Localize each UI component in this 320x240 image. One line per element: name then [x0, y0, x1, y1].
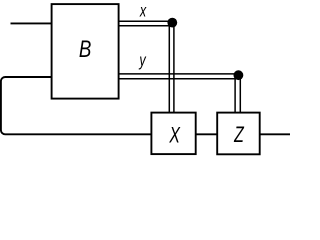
svg-text:Z: Z: [233, 124, 245, 148]
svg-text:x: x: [139, 2, 147, 22]
svg-text:X: X: [169, 124, 181, 148]
svg-text:y: y: [139, 51, 147, 71]
svg-text:B: B: [79, 36, 91, 63]
